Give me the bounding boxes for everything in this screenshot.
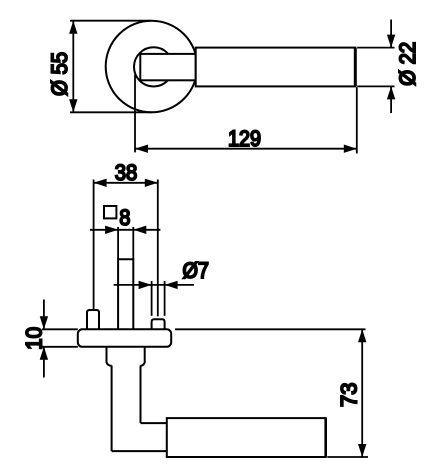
neck circle Ø22 front view: [134, 47, 173, 86]
dim 73 extension line bottom: [327, 456, 368, 458]
dim 10 extension line top: [42, 328, 78, 330]
screw post right Ø7: [152, 319, 165, 329]
svg-text:Ø 22: Ø 22: [395, 42, 420, 86]
svg-text:10: 10: [22, 327, 47, 350]
dim 8 square symbol: [104, 206, 116, 218]
handle grip bar front view: [196, 48, 356, 87]
dim 38 dimension line: [94, 182, 158, 184]
dim Ø55 extension line top: [70, 20, 152, 22]
svg-text:129: 129: [228, 126, 261, 151]
dim 38 extension line left: [93, 180, 95, 311]
dim Ø7 extension line right: [164, 281, 166, 316]
dim 8 extension line right: [132, 227, 134, 259]
dim Ø22 dimension line lower: [390, 86, 392, 113]
handle neck side view right edge: [140, 366, 142, 424]
dim Ø7 extension line left: [151, 281, 153, 316]
dim 10 extension line bottom: [42, 346, 78, 348]
handle bend inner shelf: [141, 422, 167, 424]
dim 73 extension line top: [175, 328, 366, 330]
handle neck side view left edge: [111, 366, 113, 452]
svg-text:73: 73: [337, 383, 362, 408]
hub collar below plate right edge: [141, 347, 145, 366]
dim Ø22 extension line top: [357, 47, 394, 49]
handle grip side view: [167, 418, 326, 457]
fixing screw post left: [87, 310, 99, 329]
svg-text:8: 8: [119, 205, 130, 230]
rose plate side view: [78, 329, 171, 347]
dim 38 extension line right / post axis: [157, 180, 159, 317]
dim 10 dimension line lower: [43, 347, 45, 378]
svg-text:Ø 55: Ø 55: [47, 52, 72, 96]
square spindle side view: [118, 259, 133, 329]
svg-text:Ø7: Ø7: [182, 258, 209, 283]
dim 129 dimension line: [135, 148, 357, 150]
handle neck front view: [140, 54, 195, 80]
grip end cap: [354, 48, 357, 87]
hub collar below plate left edge: [107, 347, 112, 366]
dim Ø55 dimension line: [72, 21, 74, 113]
dim 8 extension line left: [117, 227, 119, 259]
dim 129 extension line left: [134, 75, 136, 153]
svg-text:38: 38: [115, 160, 138, 185]
dim 73 dimension line: [361, 329, 363, 457]
dim Ø22 extension line bottom: [357, 85, 394, 87]
dim Ø55 extension line bottom: [70, 111, 152, 113]
dim 10 dimension line upper: [43, 300, 45, 330]
grip end cap side view: [324, 418, 327, 457]
dim 129 extension line right: [356, 87, 358, 153]
rose (round escutcheon) front view, Ø55: [106, 21, 198, 113]
dim Ø22 dimension line upper: [390, 20, 392, 48]
handle bend bottom: [112, 450, 167, 452]
dim 8 dimension line: [90, 229, 160, 231]
dim Ø7 dimension line: [114, 284, 194, 286]
